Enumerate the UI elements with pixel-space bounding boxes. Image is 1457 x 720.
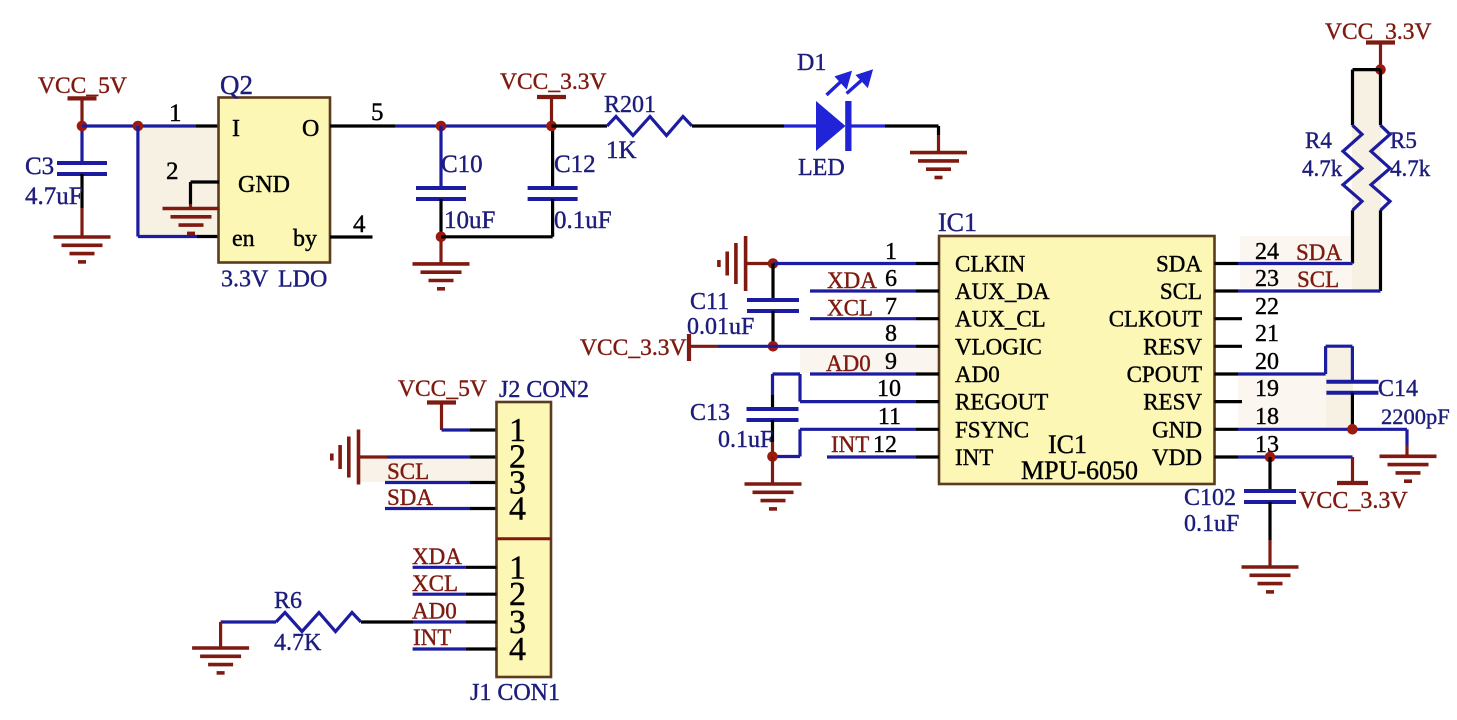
wire REGOUT pin 10	[773, 374, 940, 402]
connector J2 CON2 body	[497, 402, 552, 677]
svg-text:SDA: SDA	[387, 485, 433, 510]
svg-text:VCC_3.3V: VCC_3.3V	[1299, 488, 1408, 514]
power symbol VCC_5V	[38, 73, 127, 126]
svg-text:I: I	[232, 116, 240, 142]
wire CLKOUT pin 22 stub	[1215, 294, 1280, 320]
wire LED cathode to ground	[885, 126, 939, 153]
background tint patch left of C14	[1238, 375, 1326, 428]
net label XDA and wire pin 6	[810, 266, 939, 293]
svg-text:SDA: SDA	[1296, 240, 1342, 265]
svg-text:C14: C14	[1378, 376, 1418, 402]
wire VLOGIC pin 8	[718, 345, 939, 348]
pin number 11	[878, 404, 901, 430]
svg-text:0.1uF: 0.1uF	[1184, 511, 1239, 537]
svg-text:4.7K: 4.7K	[274, 630, 322, 656]
svg-text:CLKIN: CLKIN	[955, 252, 1026, 277]
capacitor C3	[25, 126, 107, 237]
svg-text:20: 20	[1255, 349, 1279, 375]
net label XDA and wire J1 pin 1	[412, 544, 497, 569]
node B junction at Q2 enable branch	[133, 121, 144, 132]
net label SDA and wire J2 pin 4	[385, 485, 497, 510]
background tint patch inside C14 loop	[1326, 346, 1353, 428]
svg-text:4.7k: 4.7k	[1390, 156, 1431, 181]
wire Q2 bypass pin stub	[330, 235, 373, 238]
net label XCL and wire J1 pin 2	[412, 571, 497, 596]
svg-text:IC1: IC1	[1048, 430, 1087, 459]
capacitor C12	[528, 126, 612, 237]
svg-text:CPOUT: CPOUT	[1127, 362, 1202, 387]
ground for C102	[1242, 567, 1299, 592]
background tint patch near SDA SCL labels	[1240, 236, 1352, 288]
wire J2 pin 2	[387, 455, 497, 458]
svg-text:5: 5	[371, 99, 384, 126]
pin 2 label Q2 enable	[166, 158, 179, 185]
svg-text:J2 CON2: J2 CON2	[499, 377, 589, 403]
power symbol VCC_3.3V at VDD	[1299, 457, 1408, 514]
wire Q2 output rail	[330, 124, 552, 127]
node A junction VCC_5V rail	[77, 121, 88, 132]
svg-text:4.7k: 4.7k	[1302, 156, 1343, 181]
svg-text:R201: R201	[604, 92, 656, 118]
svg-text:GND: GND	[238, 172, 290, 198]
net label INT and wire J1 pin 4	[413, 625, 497, 650]
svg-text:10uF: 10uF	[444, 207, 495, 234]
designator Q2	[220, 70, 253, 100]
svg-text:RESV: RESV	[1143, 390, 1202, 415]
svg-text:12: 12	[873, 432, 897, 458]
svg-text:O: O	[302, 116, 319, 142]
svg-text:RESV: RESV	[1143, 334, 1202, 359]
svg-text:XCL: XCL	[827, 296, 873, 321]
power symbol VCC_5V at J2	[398, 376, 487, 430]
svg-text:LED: LED	[798, 155, 845, 181]
node I junction above R4 R5	[1375, 64, 1386, 75]
node K junction at VDD	[1265, 452, 1276, 463]
svg-text:en: en	[232, 226, 255, 252]
ground for C10 C12	[413, 264, 470, 289]
svg-text:R5: R5	[1390, 128, 1417, 153]
svg-text:4: 4	[353, 211, 366, 238]
node F junction at CLKIN	[768, 258, 779, 269]
svg-text:GND: GND	[1152, 417, 1202, 442]
svg-text:C13: C13	[690, 400, 730, 426]
capacitor C102	[1184, 457, 1296, 567]
node D junction below C10	[436, 232, 447, 243]
value label MPU-6050	[1021, 456, 1138, 485]
power symbol VCC_3.3V at VLOGIC	[580, 334, 718, 361]
svg-text:INT: INT	[955, 445, 993, 470]
capacitor C11	[687, 264, 799, 347]
svg-text:18: 18	[1255, 404, 1279, 430]
wire GND pin 18	[1215, 404, 1408, 456]
svg-text:3.3V: 3.3V	[221, 267, 269, 293]
designator IC1 above body	[938, 208, 977, 237]
svg-text:7: 7	[885, 294, 897, 320]
background tint patch behind SCL label at J2	[360, 458, 496, 482]
resistor R201	[552, 92, 785, 164]
svg-text:Q2: Q2	[220, 70, 253, 100]
ground for GND pin 18	[1380, 456, 1437, 481]
svg-text:C12: C12	[554, 151, 596, 178]
background tint patch between R4 and R5	[1352, 70, 1381, 289]
svg-text:21: 21	[1255, 321, 1279, 347]
net label SCL and wire J2 pin 3	[385, 459, 497, 484]
svg-text:IC1: IC1	[938, 208, 977, 237]
capacitor C14	[1326, 376, 1449, 429]
svg-text:4.7uF: 4.7uF	[25, 183, 83, 210]
wire VDD pin 13	[1215, 432, 1353, 458]
net label AD0 and wire pin 9	[810, 349, 939, 376]
svg-text:9: 9	[885, 349, 897, 375]
svg-text:VCC_5V: VCC_5V	[38, 73, 127, 99]
node G junction at VLOGIC	[768, 341, 779, 352]
pin 5 label Q2 output	[371, 99, 384, 126]
svg-text:XDA: XDA	[412, 544, 462, 569]
pin number 24 and net label SDA	[1255, 239, 1342, 265]
resistor R4	[1302, 70, 1381, 264]
wire J2 pin 1	[442, 428, 497, 431]
wire FSYNC pin 11	[773, 429, 940, 456]
svg-text:6: 6	[885, 266, 897, 292]
svg-text:19: 19	[1255, 376, 1279, 402]
svg-text:D1: D1	[797, 50, 826, 76]
svg-text:22: 22	[1255, 294, 1279, 320]
node E junction VCC_3.3V rail	[546, 121, 557, 132]
pin number 8	[885, 321, 897, 347]
ground for C13	[745, 457, 802, 509]
power symbol VCC_3.3V at regulator output	[500, 69, 606, 126]
svg-text:VCC_3.3V: VCC_3.3V	[580, 335, 686, 361]
svg-text:23: 23	[1255, 266, 1279, 292]
svg-text:REGOUT: REGOUT	[955, 390, 1048, 415]
background tint patch left of Q2	[138, 126, 218, 236]
pin 1 label Q2 input	[169, 100, 182, 127]
wire Q2 enable branch	[138, 126, 219, 237]
designator J1 CON1	[470, 680, 560, 706]
svg-text:SDA: SDA	[1156, 252, 1202, 277]
regulator Q2 3.3V LDO	[219, 98, 331, 263]
svg-text:11: 11	[878, 404, 901, 430]
svg-text:AD0: AD0	[826, 351, 871, 376]
node H junction below C13	[767, 451, 778, 462]
svg-text:R4: R4	[1305, 128, 1332, 153]
svg-text:R6: R6	[274, 588, 302, 614]
background tint patch behind AD0 label at IC1	[800, 348, 939, 373]
svg-text:INT: INT	[413, 625, 451, 650]
svg-text:AD0: AD0	[955, 362, 1000, 387]
svg-text:INT: INT	[831, 432, 869, 457]
svg-text:AD0: AD0	[412, 599, 457, 624]
node J junction below C14	[1347, 424, 1358, 435]
svg-text:CLKOUT: CLKOUT	[1109, 307, 1202, 332]
svg-text:C102: C102	[1184, 485, 1236, 511]
svg-text:SCL: SCL	[387, 459, 429, 484]
value label 3.3V LDO	[221, 267, 327, 293]
ground for C3	[54, 237, 111, 262]
sideways ground at J2 pin 2	[332, 430, 387, 485]
svg-text:J1 CON1: J1 CON1	[470, 680, 560, 706]
svg-text:10: 10	[877, 376, 901, 402]
pin 4 label Q2 bypass	[353, 211, 366, 238]
designator J2 CON2	[499, 377, 589, 403]
net label AD0 and wire J1 pin 3	[361, 599, 497, 624]
capacitor C13	[690, 374, 799, 457]
wire Q2 GND pin to ground	[191, 182, 220, 209]
svg-text:VLOGIC: VLOGIC	[955, 334, 1042, 359]
svg-text:AUX_DA: AUX_DA	[955, 279, 1050, 304]
wire RESV pin 19 stub	[1215, 376, 1280, 402]
wire C10 to C12 ground link	[441, 237, 553, 264]
svg-text:by: by	[293, 226, 317, 252]
op-amp U1 IC1 MPU-6050 body	[939, 236, 1215, 484]
svg-text:4: 4	[509, 631, 526, 668]
svg-text:1: 1	[885, 239, 897, 265]
ground for R6	[192, 648, 249, 673]
svg-text:VCC_5V: VCC_5V	[398, 376, 487, 402]
svg-text:C3: C3	[25, 153, 54, 180]
sideways ground at IC1 CLKIN	[719, 236, 773, 291]
node C junction at C10	[436, 121, 447, 132]
svg-text:FSYNC: FSYNC	[955, 417, 1029, 442]
svg-text:XCL: XCL	[412, 571, 458, 596]
svg-text:2: 2	[166, 158, 179, 185]
svg-text:SCL: SCL	[1160, 279, 1202, 304]
svg-text:0.1uF: 0.1uF	[554, 207, 612, 234]
wire VCC_5V rail to Q2 input	[82, 124, 219, 127]
svg-text:2200pF: 2200pF	[1381, 404, 1450, 429]
pin number 23 and net label SCL	[1255, 266, 1339, 292]
capacitor C10	[416, 126, 495, 237]
ground for LED	[910, 153, 967, 178]
ground for Q2	[163, 209, 220, 234]
LED D1	[784, 50, 885, 181]
svg-text:1: 1	[169, 100, 182, 127]
wire CLKIN pin 1	[773, 262, 939, 265]
label IC1 inside body	[1048, 430, 1087, 459]
svg-text:MPU-6050: MPU-6050	[1021, 456, 1138, 485]
wire RESV pin 21 stub	[1215, 321, 1280, 347]
svg-text:VCC_3.3V: VCC_3.3V	[500, 69, 606, 95]
svg-text:SCL: SCL	[1297, 267, 1339, 292]
resistor R5	[1371, 70, 1431, 291]
svg-text:0.01uF: 0.01uF	[687, 314, 754, 340]
net label INT and wire pin 12	[827, 432, 939, 458]
wire SDA pin 24	[1215, 262, 1353, 265]
svg-text:AUX_CL: AUX_CL	[955, 307, 1046, 332]
power symbol VCC_3.3V above R4 R5	[1325, 19, 1431, 70]
svg-text:0.1uF: 0.1uF	[718, 427, 773, 453]
wire SCL pin 23	[1215, 289, 1381, 292]
net label XCL and wire pin 7	[810, 294, 939, 321]
pin number 10	[877, 376, 901, 402]
pin number 1	[885, 239, 897, 265]
svg-text:LDO: LDO	[278, 267, 327, 293]
svg-text:C10: C10	[441, 151, 483, 178]
svg-text:8: 8	[885, 321, 897, 347]
svg-text:C11: C11	[690, 289, 729, 315]
wire CPOUT pin 20	[1215, 346, 1353, 382]
svg-text:VDD: VDD	[1152, 445, 1202, 470]
svg-text:XDA: XDA	[827, 268, 877, 293]
svg-text:4: 4	[509, 491, 526, 528]
wire R6 to ground	[219, 622, 222, 648]
resistor R6	[221, 588, 361, 656]
svg-text:1K: 1K	[606, 137, 637, 164]
svg-text:24: 24	[1255, 239, 1279, 265]
